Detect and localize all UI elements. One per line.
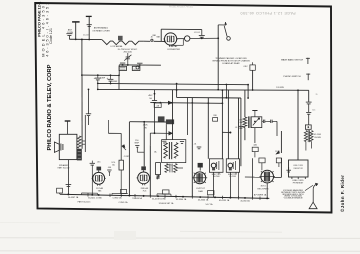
svg-text:PART 36-1532: PART 36-1532	[58, 167, 70, 170]
svg-text:20MF: 20MF	[112, 81, 118, 83]
svg-text:7048-M 1A: 7048-M 1A	[132, 197, 142, 200]
svg-text:30-2568: 30-2568	[213, 176, 220, 178]
svg-text:ANT: ANT	[68, 28, 73, 31]
svg-text:45-3500 1A: 45-3500 1A	[198, 198, 209, 201]
svg-text:VIEWED FROM BOTTOM OF CHAS: VIEWED FROM BOTTOM OF CHASSIS	[212, 60, 250, 63]
svg-text:30-4567 1A: 30-4567 1A	[68, 196, 79, 199]
svg-text:COND 1A: COND 1A	[119, 201, 129, 204]
svg-text:42-1001: 42-1001	[83, 34, 89, 36]
svg-text:AVC: AVC	[149, 94, 154, 97]
svg-text:LINE CORD: LINE CORD	[293, 165, 303, 167]
svg-text:LOKTAL: LOKTAL	[170, 45, 179, 48]
svg-text:CONVERTER: CONVERTER	[167, 49, 181, 51]
svg-text:1ST AF: 1ST AF	[96, 187, 104, 190]
svg-text:470K: 470K	[143, 125, 148, 127]
svg-text:2ND AF: 2ND AF	[141, 187, 149, 190]
svg-text:50A5: 50A5	[198, 190, 204, 193]
svg-text:©John F. Rider: ©John F. Rider	[340, 175, 345, 212]
svg-text:33-5411 COND: 33-5411 COND	[88, 197, 102, 199]
svg-text:45-350 1A: 45-350 1A	[240, 199, 250, 202]
svg-text:42-1002: 42-1002	[194, 32, 200, 34]
svg-text:COND 1A: COND 1A	[113, 197, 123, 200]
svg-text:PHILCO RADIO & TELEV, CORP: PHILCO RADIO & TELEV, CORP	[47, 64, 53, 150]
svg-text:61-0138 COND: 61-0138 COND	[152, 199, 166, 201]
svg-text:35Y4: 35Y4	[260, 186, 266, 188]
svg-text:.01: .01	[194, 144, 197, 146]
svg-text:.015: .015	[97, 162, 101, 164]
svg-text:LINE CORD: LINE CORD	[292, 180, 304, 182]
svg-text:.05: .05	[235, 127, 238, 129]
svg-text:WAVE BAND SWITCH: WAVE BAND SWITCH	[281, 59, 304, 62]
svg-text:CHOKE: CHOKE	[314, 137, 321, 139]
svg-text:Code 121: Code 121	[49, 28, 53, 44]
svg-text:ON REAR COVER: ON REAR COVER	[92, 29, 110, 32]
svg-text:46-350, 46-350-I, 46-351: 46-350, 46-350-I, 46-351	[169, 5, 194, 8]
svg-text:RESISTOR: RESISTOR	[294, 168, 304, 170]
svg-text:TRIMMER PADDER LOCATIONS: TRIMMER PADDER LOCATIONS	[215, 57, 247, 60]
svg-text:LOOP AERIAL: LOOP AERIAL	[110, 45, 122, 48]
svg-text:PHONO SWITCH: PHONO SWITCH	[283, 76, 301, 78]
svg-text:120 MW: 120 MW	[276, 87, 284, 89]
svg-text:ANTENNA ADJ: ANTENNA ADJ	[94, 27, 108, 30]
svg-text:PH RESIST: PH RESIST	[293, 183, 304, 185]
svg-text:45-3500 1A: 45-3500 1A	[176, 198, 187, 201]
svg-text:35: 35	[316, 94, 318, 96]
svg-text:OUTPUT: OUTPUT	[196, 188, 206, 190]
svg-text:PAGE 12-1 PHILCO 46-350: PAGE 12-1 PHILCO 46-350	[241, 11, 296, 15]
svg-text:OSC: OSC	[243, 66, 248, 68]
svg-text:42-1345: 42-1345	[314, 134, 321, 136]
svg-text:32-8006 SET 1A: 32-8006 SET 1A	[159, 202, 174, 205]
svg-text:A POWER 1A: A POWER 1A	[254, 193, 267, 196]
svg-text:VOLUME AT MINIMUM: VOLUME AT MINIMUM	[284, 196, 303, 199]
svg-text:50MF: 50MF	[100, 77, 106, 79]
svg-text:PART 30-1115: PART 30-1115	[78, 200, 92, 203]
svg-text:115: 115	[312, 110, 315, 112]
svg-text:E BAND AT REAR: E BAND AT REAR	[222, 62, 240, 65]
svg-text:.004: .004	[108, 167, 112, 169]
svg-text:54-7 1A: 54-7 1A	[205, 203, 213, 206]
svg-text:61-0135 1A: 61-0135 1A	[219, 199, 230, 202]
